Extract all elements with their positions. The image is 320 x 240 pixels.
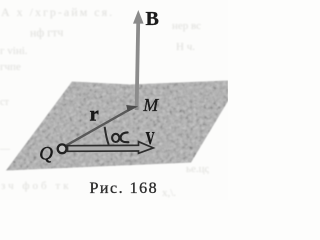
svg-text:А х /хгр-айм ся.: А х /хгр-айм ся. — [1, 5, 114, 19]
svg-text:r: r — [90, 102, 99, 126]
svg-text:зч фоб тк: зч фоб тк — [1, 180, 72, 192]
svg-text:Н ч.: Н ч. — [176, 41, 195, 53]
svg-text:ст: ст — [0, 97, 9, 108]
plane (gray parallelogram) — [0, 75, 228, 175]
velocity vector v (outlined arrow) — [68, 142, 154, 154]
svg-text:ье.цς: ье.цς — [186, 163, 210, 175]
magnetic field vector B: shaft — [137, 23, 139, 110]
svg-text:гчпе: гчпе — [0, 61, 21, 73]
svg-text:Q: Q — [39, 143, 53, 164]
angle alpha: arc tick — [105, 127, 109, 145]
bleed-through text top-left — [0, 5, 210, 199]
svg-text:нер вс: нер вс — [172, 20, 201, 32]
svg-text:—: — — [0, 144, 11, 155]
radius vector r: arrowhead at M — [126, 105, 138, 112]
svg-text:г viнi.: г viнi. — [0, 45, 28, 57]
radius vector r: line from Q to M — [66, 110, 129, 146]
svg-text:х,\.: х,\. — [162, 187, 176, 199]
label alpha — [112, 132, 128, 142]
svg-text:v: v — [146, 121, 156, 150]
svg-text:нф гтч: нф гтч — [30, 25, 64, 40]
svg-text:M: M — [142, 95, 159, 115]
svg-text:B: B — [146, 8, 159, 30]
magnetic field vector B: arrowhead — [133, 10, 144, 24]
paper background — [0, 0, 228, 200]
svg-text:Рис. 168: Рис. 168 — [90, 180, 159, 197]
charge Q: small circle — [58, 144, 67, 153]
